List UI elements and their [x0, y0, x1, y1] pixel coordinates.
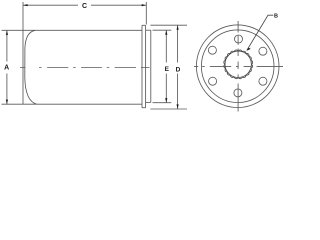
dimension A extension+outline top edge: [2, 29, 143, 31]
bolt hole upper-left: [208, 46, 216, 54]
can centerline: [20, 67, 150, 69]
C dimension line: [23, 4, 78, 6]
svg-text:B: B: [274, 14, 278, 20]
arrow C right: [142, 4, 146, 6]
arrow D bottom: [177, 104, 179, 108]
base plate top edge: [142, 24, 146, 26]
gasket right edge: [150, 30, 152, 102]
svg-text:C: C: [82, 3, 87, 10]
C right extension line: [145, 2, 147, 25]
bolt hole upper-right: [259, 47, 267, 55]
arrow A bottom: [6, 100, 8, 104]
arrow E bottom: [165, 98, 167, 102]
arrow A top: [6, 31, 8, 35]
gasket top edge: [146, 29, 151, 31]
arrow C left: [23, 4, 27, 6]
B leader line: [247, 15, 273, 50]
D top extension line: [150, 24, 187, 26]
dimension A extension+outline bottom edge: [2, 103, 143, 105]
A dimension line: [6, 30, 8, 61]
base plate bottom edge: [142, 107, 146, 109]
arrow B leader: [246, 48, 250, 51]
arrow D top: [177, 25, 179, 29]
bolt hole lower-left: [209, 77, 217, 85]
vertical centerline of end view: [237, 21, 239, 112]
dome curve of can left end: [25, 30, 37, 104]
horizontal centerline of end view: [194, 65, 283, 67]
E top extension line: [153, 29, 172, 31]
arrow E top: [165, 30, 167, 34]
second circle (can outer diameter): [201, 30, 274, 103]
bolt hole lower-right: [259, 77, 267, 85]
svg-text:E: E: [165, 66, 170, 73]
E bottom extension line: [153, 102, 172, 104]
outer circle (base flange): [196, 25, 279, 108]
bolt hole top: [235, 35, 243, 43]
E dimension line: [165, 30, 167, 62]
base plate right edge: [145, 25, 147, 107]
bolt hole bottom: [234, 89, 242, 97]
thread scallop ticks: [224, 50, 253, 79]
D dimension line: [177, 25, 179, 62]
D bottom extension line: [150, 108, 187, 110]
svg-text:D: D: [176, 66, 181, 73]
center thread hole: [225, 51, 251, 77]
filter can left edge / C extension line: [22, 2, 24, 104]
svg-text:A: A: [4, 65, 9, 72]
gasket bottom edge: [146, 101, 151, 103]
base plate left edge (can end seam): [141, 25, 143, 107]
